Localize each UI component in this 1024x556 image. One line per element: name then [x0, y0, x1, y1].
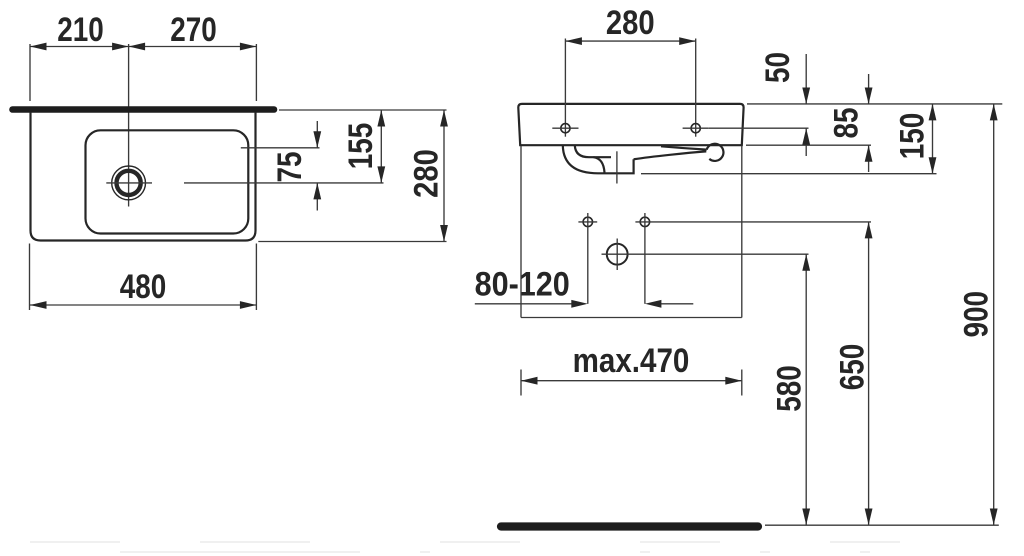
dimension 280 (plan) arrow bottom: [440, 225, 448, 242]
svg-text:280: 280: [606, 3, 655, 42]
extension line top edge to 280 dim (plan right): [279, 109, 447, 111]
dimension 210 line: [30, 46, 129, 48]
svg-text:75: 75: [270, 151, 308, 182]
svg-text:150: 150: [893, 113, 931, 160]
drain centerline (side view): [616, 151, 618, 183]
reference line drain axis (plan): [184, 182, 384, 184]
overflow hook arc: [707, 144, 724, 161]
dimension 280 (plan) arrow top: [440, 110, 448, 127]
svg-text:280: 280: [406, 149, 445, 198]
dimension 50 upper segment: [805, 54, 807, 104]
basin bottom extension line to 85 dim: [746, 144, 871, 146]
svg-text:270: 270: [170, 10, 217, 48]
dimension 75 upper arrow: [316, 121, 318, 148]
dimension 480 line: [30, 304, 256, 306]
dimension 155 arrow top: [377, 110, 385, 127]
svg-text:650: 650: [833, 344, 871, 391]
fixing hole extension line right (side view): [695, 39, 697, 137]
extension line left (plan bottom): [29, 244, 31, 311]
max.470 extension left: [520, 370, 522, 396]
washbasin outer outline (plan view): [31, 112, 256, 241]
washbasin inner bowl (plan view): [86, 130, 249, 233]
dimension 280 (side) line: [565, 40, 695, 42]
drain crosshair horizontal: [106, 182, 152, 184]
dimension 150 line: [932, 104, 934, 174]
dimension 280 (plan) line: [443, 110, 445, 242]
svg-text:80-120: 80-120: [475, 265, 570, 303]
trap inner curve: [575, 146, 611, 158]
svg-text:480: 480: [120, 267, 167, 305]
dimension 80-120 left segment: [475, 303, 574, 305]
dimension 280 (side) arrow right: [679, 37, 696, 45]
dimension 480 arrow left: [30, 301, 47, 309]
underside upper edge line: [661, 146, 707, 149]
fixing hole extension line left (side view): [564, 39, 566, 137]
reference line 75 upper (plan): [241, 147, 320, 149]
bottom fixing hole left (front view): [583, 217, 592, 226]
underside lower curve to overflow: [634, 151, 707, 159]
drain outer circle: [112, 166, 146, 200]
svg-text:580: 580: [770, 365, 808, 412]
drain reference line to 580 dim: [602, 253, 809, 255]
dimension 270 line: [129, 46, 257, 48]
drain hole (front view): [607, 244, 628, 265]
dimension 75 lower arrow: [316, 183, 318, 211]
trap outer curve (under basin): [563, 146, 634, 174]
hole reference line to 650 dim: [635, 221, 871, 223]
tap hole symbol right (side view): [691, 124, 700, 133]
extension line right (plan top): [255, 44, 257, 101]
dimension 155 arrow bottom: [377, 166, 385, 183]
drain thick ring: [117, 171, 141, 195]
svg-text:50: 50: [758, 52, 796, 83]
dimension max.470 line: [521, 380, 742, 382]
centerline through tap/drain axis (plan view): [128, 44, 130, 207]
svg-text:max.470: max.470: [573, 341, 690, 379]
extension line left (plan top): [29, 44, 31, 101]
trap bottom reference line to 150 dim: [641, 173, 937, 175]
faint cropped artifacts at bottom: [30, 542, 900, 552]
dimension 85 lower segment: [868, 145, 870, 172]
svg-text:85: 85: [827, 107, 865, 138]
dimension 280 (side) arrow left: [565, 37, 582, 45]
dimension 210 arrow right: [112, 43, 129, 51]
tap hole line extension to 50 dim: [709, 127, 809, 129]
tap hole symbol left (side view): [561, 124, 570, 133]
dimension 900 line: [993, 104, 995, 525]
dimension 210 arrow left: [30, 43, 47, 51]
max.470 extension right: [741, 370, 743, 396]
svg-text:900: 900: [957, 291, 995, 338]
wall line (thick bar, plan view): [13, 106, 275, 113]
bottom fixing hole right (front view): [640, 217, 649, 226]
dimension 580 line: [805, 254, 807, 525]
svg-text:155: 155: [341, 123, 379, 170]
dimension 270 arrow right: [240, 43, 257, 51]
dimension 270 arrow left: [129, 43, 146, 51]
dimension 480 arrow right: [240, 301, 257, 309]
installation box left line: [520, 146, 522, 318]
floor line (thin): [765, 524, 999, 526]
dimension 80-120 right segment: [659, 303, 693, 305]
dimension 85 upper segment: [868, 74, 870, 104]
extension line bottom edge to 280 dim (plan right): [258, 241, 446, 243]
installation box bottom line: [521, 317, 742, 319]
floor line (thick bar): [501, 522, 758, 530]
extension line right (plan bottom): [255, 244, 257, 311]
dimension 155 line: [380, 110, 382, 183]
dimension 650 line: [868, 222, 870, 525]
svg-text:210: 210: [57, 10, 104, 48]
drain stub left wall: [594, 157, 605, 172]
installation box right line: [741, 146, 743, 318]
basin top extension line to 900 dim: [747, 103, 1002, 105]
dimension 50 lower segment: [805, 128, 807, 156]
basin profile (side view): [518, 104, 743, 145]
